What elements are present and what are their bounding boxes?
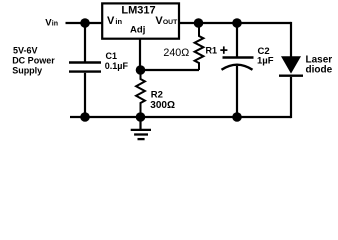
capacitor C2 plus sign: [220, 46, 227, 53]
svg-text:240Ω: 240Ω: [163, 47, 189, 59]
resistor R1 240 ohm: [195, 23, 204, 70]
wire top-left from Vin to LM317: [66, 22, 103, 24]
node Vin label: [45, 17, 58, 28]
svg-text:in: in: [115, 17, 122, 26]
svg-text:5V-6V: 5V-6V: [13, 45, 38, 55]
pin Vin of LM317: [107, 15, 122, 27]
capacitor C1: [69, 63, 101, 72]
svg-text:OUT: OUT: [163, 19, 178, 26]
wire below laser diode: [290, 77, 292, 118]
svg-text:300Ω: 300Ω: [150, 100, 175, 111]
svg-text:Supply: Supply: [12, 65, 42, 75]
svg-text:LM317: LM317: [121, 5, 155, 17]
power supply label: [12, 45, 55, 75]
node junction dot at R1 top: [194, 18, 204, 28]
wire right drop to laser diode: [290, 22, 292, 57]
wire C2 branch upper: [236, 23, 238, 57]
capacitor C2 electrolytic: [222, 58, 254, 70]
svg-text:DC Power: DC Power: [12, 55, 55, 65]
wire Adj to R1 bottom: [141, 69, 200, 71]
node junction dot bottom-left: [80, 112, 90, 122]
node junction dot Adj: [136, 65, 146, 75]
ground stub: [139, 117, 141, 130]
ground symbol: [131, 130, 151, 139]
laser diode D1 triangle: [281, 56, 301, 73]
resistor R2 300 ohm: [136, 70, 145, 117]
wire Adj pin stub: [139, 39, 141, 71]
svg-text:Adj: Adj: [130, 25, 145, 36]
C2 value label: [257, 46, 274, 67]
wire C1 branch upper: [84, 23, 86, 62]
svg-text:diode: diode: [306, 65, 333, 76]
svg-text:0.1µF: 0.1µF: [105, 61, 129, 71]
svg-text:V: V: [107, 15, 115, 27]
laser diode label: [306, 55, 333, 76]
node junction dot bottom-center: [136, 112, 146, 122]
pin Vout of LM317: [155, 15, 178, 27]
node junction dot at C2 top: [232, 18, 242, 28]
node junction dot top-left: [80, 18, 90, 28]
laser diode cathode bar: [279, 74, 303, 76]
svg-text:R1: R1: [206, 46, 218, 56]
wire C1 branch lower: [84, 73, 86, 117]
svg-text:1µF: 1µF: [257, 56, 274, 67]
wire top from Vout to laser diode branch: [178, 22, 291, 24]
node junction dot bottom C2: [232, 112, 242, 122]
wire bottom rail: [70, 116, 291, 118]
op-amp U1 LM317 regulator box: [102, 3, 179, 38]
wire C2 branch lower: [236, 66, 238, 117]
svg-text:in: in: [52, 20, 58, 27]
C1 value label: [105, 51, 129, 71]
svg-text:C1: C1: [106, 51, 118, 61]
